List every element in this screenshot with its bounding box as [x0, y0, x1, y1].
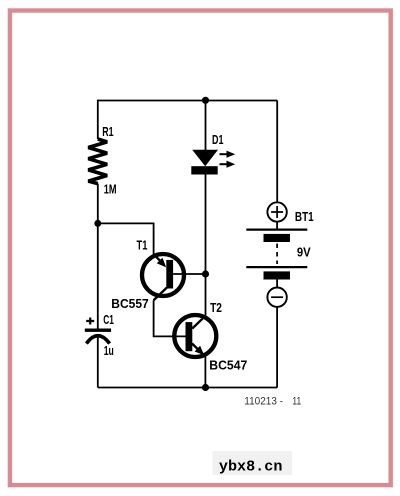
- transistor T1 (BC557 PNP): [142, 254, 184, 300]
- svg-text:T2: T2: [210, 300, 222, 315]
- svg-text:T1: T1: [137, 237, 148, 252]
- svg-text:BC547: BC547: [209, 358, 247, 373]
- resistor R1: [88, 139, 107, 184]
- svg-text:9V: 9V: [297, 245, 311, 260]
- svg-text:BC557: BC557: [111, 296, 148, 311]
- node junction dot top: [202, 97, 209, 104]
- node junction dot bottom: [202, 384, 209, 391]
- wire top rail: [98, 100, 277, 102]
- wire bottom rail: [98, 387, 277, 389]
- svg-text:1u: 1u: [104, 343, 114, 358]
- svg-text:C1: C1: [103, 312, 114, 327]
- plus sign C1: [86, 318, 94, 325]
- wire R1 top lead: [97, 100, 99, 139]
- svg-text:D1: D1: [212, 132, 224, 147]
- led D1: [191, 101, 218, 275]
- wire junction to T1 emitter: [98, 223, 154, 254]
- svg-text:11: 11: [292, 396, 302, 408]
- watermark box ybx8.cn: [213, 451, 293, 475]
- node junction dot left: [94, 220, 101, 227]
- wire junction down to C1: [97, 223, 99, 328]
- node junction dot base T1: [202, 270, 209, 277]
- wire node down to T2 collector: [205, 274, 207, 317]
- battery BT1: [246, 101, 307, 388]
- svg-text:ybx8.cn: ybx8.cn: [219, 458, 283, 475]
- capacitor C1: [85, 329, 111, 388]
- svg-text:1M: 1M: [104, 181, 117, 196]
- svg-text:R1: R1: [102, 124, 113, 139]
- wire R1 bottom lead: [97, 184, 99, 224]
- wire T1 collector to T2 base: [154, 300, 186, 336]
- wire T2 emitter down: [204, 356, 206, 388]
- led arrow 1: [220, 151, 236, 158]
- wire T1 base to node: [173, 273, 205, 275]
- led arrow 2: [220, 161, 236, 168]
- svg-text:BT1: BT1: [295, 209, 314, 224]
- transistor T2 (BC547 NPN): [174, 315, 216, 357]
